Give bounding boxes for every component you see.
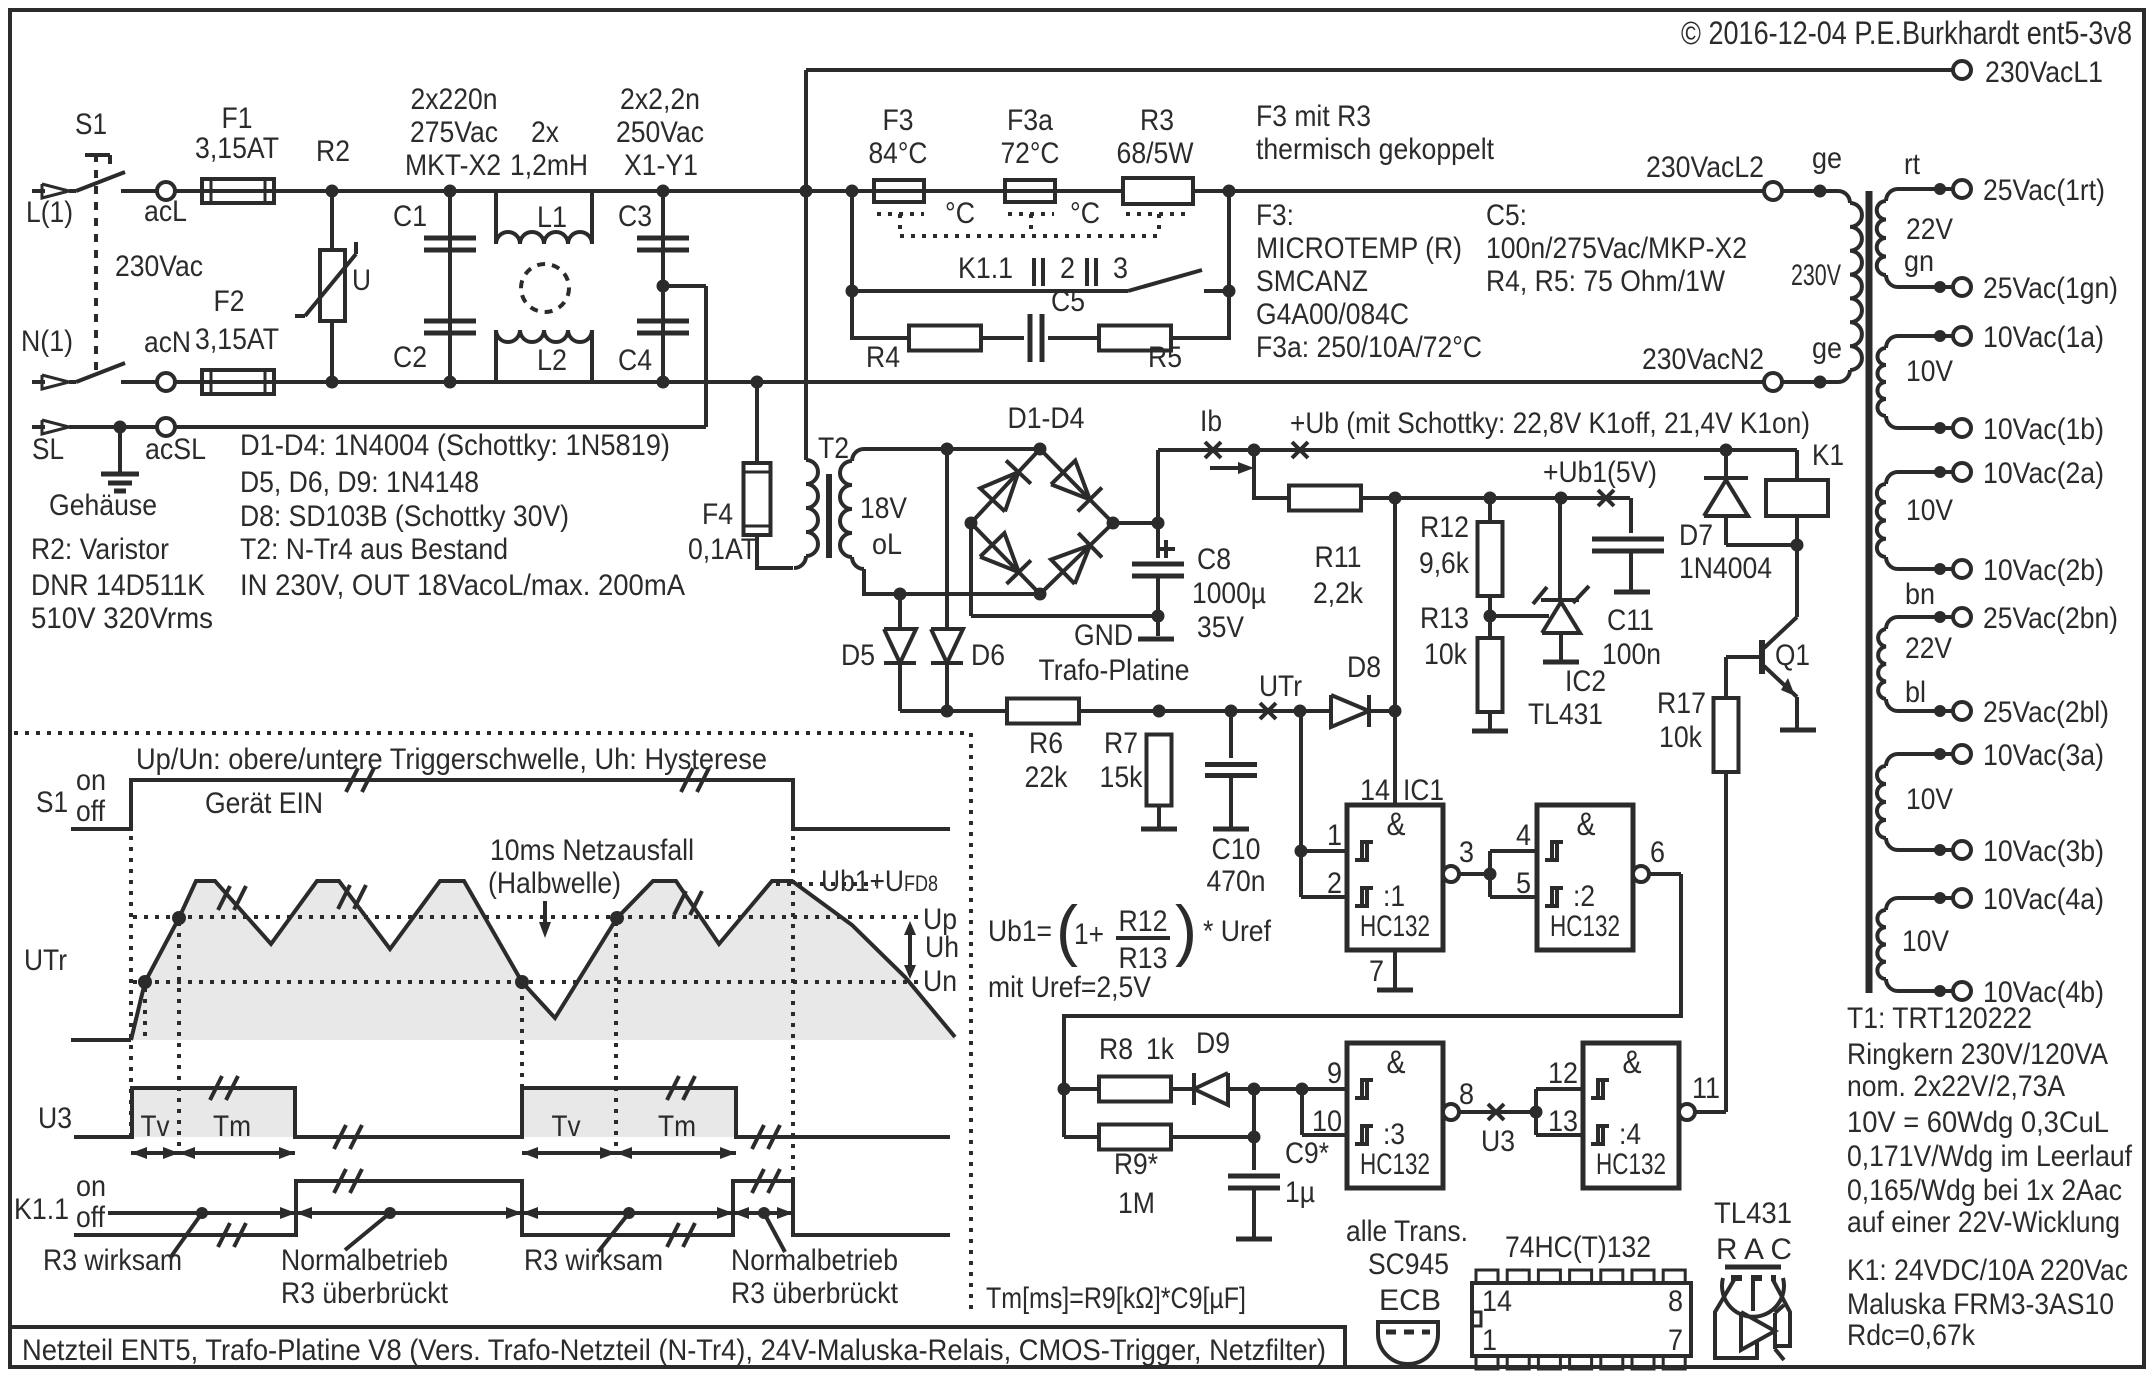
svg-text:0,165/Wdg bei 1x 2Aac: 0,165/Wdg bei 1x 2Aac: [1847, 1174, 2122, 1207]
svg-text:9: 9: [1327, 1057, 1342, 1090]
svg-text:510V 320Vrms: 510V 320Vrms: [31, 602, 213, 635]
svg-text:Tm[ms]=R9[kΩ]*C9[µF]: Tm[ms]=R9[kΩ]*C9[µF]: [986, 1282, 1246, 1315]
svg-text:C5: C5: [1051, 285, 1085, 318]
svg-text:C3: C3: [618, 200, 652, 233]
svg-text:R6: R6: [1029, 727, 1063, 760]
svg-text:(Halbwelle): (Halbwelle): [488, 867, 621, 900]
svg-text:&: &: [1623, 1044, 1642, 1080]
svg-text:R5: R5: [1148, 341, 1182, 374]
svg-text:K1.1: K1.1: [14, 1193, 69, 1226]
svg-text:D5, D6, D9: 1N4148: D5, D6, D9: 1N4148: [240, 466, 479, 499]
svg-text:HC132: HC132: [1360, 910, 1430, 943]
svg-text:1000µ: 1000µ: [1192, 577, 1266, 610]
svg-text:F4: F4: [702, 498, 733, 531]
svg-text:Un: Un: [923, 965, 957, 998]
svg-text:9,6k: 9,6k: [1419, 547, 1470, 580]
svg-text:R8: R8: [1099, 1033, 1133, 1066]
svg-text:Q1: Q1: [1775, 639, 1810, 672]
svg-text:230Vac: 230Vac: [115, 250, 203, 283]
svg-text:MKT-X2: MKT-X2: [405, 149, 501, 182]
svg-text:K1: K1: [1812, 439, 1844, 472]
svg-text:Maluska FRM3-3AS10: Maluska FRM3-3AS10: [1847, 1288, 2114, 1321]
svg-text:on: on: [76, 1170, 106, 1203]
svg-text::1: :1: [1383, 880, 1405, 913]
svg-text:25Vac(2bl): 25Vac(2bl): [1983, 696, 2109, 729]
svg-text:GND: GND: [1074, 619, 1133, 652]
svg-text:Tm: Tm: [658, 1110, 696, 1143]
svg-text:R13: R13: [1420, 602, 1469, 635]
svg-text:Rdc=0,67k: Rdc=0,67k: [1847, 1319, 1976, 1352]
svg-text:68/5W: 68/5W: [1117, 137, 1195, 170]
svg-text:K1: 24VDC/10A 220Vac: K1: 24VDC/10A 220Vac: [1847, 1254, 2128, 1287]
svg-text:ECB: ECB: [1379, 1284, 1441, 1317]
svg-text:C11: C11: [1607, 604, 1654, 637]
svg-text:8: 8: [1668, 1285, 1683, 1318]
svg-text:HC132: HC132: [1550, 910, 1620, 943]
svg-text:Netzteil ENT5, Trafo-Platine V: Netzteil ENT5, Trafo-Platine V8 (Vers. T…: [22, 1334, 1326, 1367]
svg-text:oL: oL: [872, 528, 902, 561]
svg-text:1+: 1+: [1074, 918, 1104, 951]
svg-text:Normalbetrieb: Normalbetrieb: [281, 1244, 448, 1277]
svg-text:2,2k: 2,2k: [1313, 577, 1364, 610]
svg-text:14: 14: [1360, 774, 1390, 807]
svg-text:4: 4: [1516, 819, 1531, 852]
svg-text:R A C: R A C: [1716, 1233, 1792, 1266]
svg-text:rt: rt: [1904, 148, 1921, 181]
svg-text:ge: ge: [1812, 142, 1842, 175]
svg-text:3,15AT: 3,15AT: [195, 323, 279, 356]
svg-text:10V: 10V: [1902, 925, 1949, 958]
svg-text:thermisch gekoppelt: thermisch gekoppelt: [1256, 133, 1495, 166]
svg-text:10Vac(2b): 10Vac(2b): [1983, 554, 2104, 587]
svg-text:F3a: F3a: [1007, 104, 1053, 137]
svg-text:C1: C1: [393, 200, 427, 233]
svg-text:Normalbetrieb: Normalbetrieb: [731, 1244, 898, 1277]
svg-text:&: &: [1387, 806, 1406, 842]
svg-text:230VacL1: 230VacL1: [1985, 56, 2103, 89]
svg-text:470n: 470n: [1207, 865, 1266, 898]
svg-text:+Ub1(5V): +Ub1(5V): [1543, 456, 1657, 489]
svg-text:IC1: IC1: [1403, 774, 1444, 807]
svg-text:F3:: F3:: [1256, 199, 1294, 232]
svg-text:25Vac(2bn): 25Vac(2bn): [1983, 602, 2118, 635]
svg-text:X1-Y1: X1-Y1: [624, 149, 698, 182]
svg-text:1: 1: [1482, 1324, 1497, 1357]
svg-text:on: on: [76, 764, 106, 797]
svg-text:C8: C8: [1197, 543, 1231, 576]
svg-text:230V: 230V: [1791, 259, 1841, 292]
svg-text:off: off: [76, 795, 106, 828]
svg-text:1M: 1M: [1118, 1187, 1155, 1220]
svg-text:10Vac(3b): 10Vac(3b): [1983, 835, 2104, 868]
svg-text:L(1): L(1): [26, 196, 73, 229]
svg-text:D9: D9: [1196, 1027, 1230, 1060]
svg-text:R3 überbrückt: R3 überbrückt: [731, 1277, 899, 1310]
svg-text:11: 11: [1692, 1072, 1720, 1105]
svg-text:&: &: [1387, 1044, 1406, 1080]
svg-text:S1: S1: [36, 786, 68, 819]
svg-text:T2: N-Tr4 aus Bestand: T2: N-Tr4 aus Bestand: [240, 533, 508, 566]
svg-text:6: 6: [1650, 836, 1665, 869]
svg-text:10Vac(1b): 10Vac(1b): [1983, 413, 2104, 446]
svg-text:off: off: [76, 1201, 106, 1234]
svg-text:HC132: HC132: [1596, 1148, 1666, 1181]
svg-text:3: 3: [1113, 252, 1128, 285]
svg-text:gn: gn: [1904, 245, 1934, 278]
svg-text:T1: TRT120222: T1: TRT120222: [1847, 1002, 2032, 1035]
svg-text:Tm: Tm: [213, 1110, 251, 1143]
svg-text:mit Uref=2,5V: mit Uref=2,5V: [988, 971, 1151, 1004]
svg-text:2x220n: 2x220n: [411, 83, 498, 116]
svg-text:25Vac(1gn): 25Vac(1gn): [1983, 272, 2118, 305]
svg-text:UTr: UTr: [1259, 670, 1302, 703]
svg-text:F2: F2: [214, 285, 245, 318]
svg-text:84°C: 84°C: [869, 137, 928, 170]
svg-text:Tv: Tv: [552, 1110, 581, 1143]
svg-text:DNR 14D511K: DNR 14D511K: [31, 569, 205, 602]
svg-text:7: 7: [1668, 1324, 1683, 1357]
svg-text:74HC(T)132: 74HC(T)132: [1505, 1231, 1651, 1264]
svg-text:10V: 10V: [1906, 783, 1953, 816]
svg-text:acSL: acSL: [145, 433, 206, 466]
svg-text:10Vac(1a): 10Vac(1a): [1983, 321, 2104, 354]
svg-text:S1: S1: [75, 108, 107, 141]
svg-text:230VacN2: 230VacN2: [1642, 343, 1764, 376]
svg-text:Tv: Tv: [141, 1110, 170, 1143]
svg-text:L2: L2: [537, 344, 567, 377]
svg-text:R11: R11: [1315, 541, 1362, 574]
svg-text:10k: 10k: [1659, 721, 1703, 754]
svg-text:100n/275Vac/MKP-X2: 100n/275Vac/MKP-X2: [1486, 232, 1747, 265]
svg-text:G4A00/084C: G4A00/084C: [1256, 298, 1409, 331]
svg-text:bl: bl: [1905, 676, 1926, 709]
svg-text:1µ: 1µ: [1285, 1176, 1315, 1209]
svg-text:C4: C4: [618, 344, 652, 377]
svg-text:1,2mH: 1,2mH: [510, 149, 588, 182]
svg-text:14: 14: [1482, 1285, 1512, 1318]
svg-text:R12: R12: [1119, 905, 1168, 938]
svg-text:Ib: Ib: [1200, 405, 1222, 438]
svg-text:C5:: C5:: [1486, 199, 1527, 232]
svg-text:acL: acL: [144, 195, 187, 228]
svg-text:10ms Netzausfall: 10ms Netzausfall: [490, 834, 694, 867]
svg-text:2: 2: [1327, 867, 1342, 900]
svg-text:22k: 22k: [1025, 761, 1069, 794]
svg-text:R12: R12: [1420, 511, 1469, 544]
svg-text:Gerät EIN: Gerät EIN: [205, 787, 323, 820]
svg-text:C10: C10: [1212, 833, 1261, 866]
svg-text:1k: 1k: [1146, 1033, 1175, 1066]
svg-text:12: 12: [1548, 1057, 1578, 1090]
svg-text:IC2: IC2: [1565, 665, 1606, 698]
svg-text:10Vac(2a): 10Vac(2a): [1983, 457, 2104, 490]
svg-text:2: 2: [1060, 252, 1075, 285]
svg-text:SMCANZ: SMCANZ: [1256, 265, 1368, 298]
svg-text:R7: R7: [1104, 727, 1138, 760]
svg-text:D6: D6: [971, 639, 1005, 672]
svg-text:TL431: TL431: [1714, 1197, 1792, 1230]
svg-text:25Vac(1rt): 25Vac(1rt): [1983, 174, 2105, 207]
svg-text:C2: C2: [393, 341, 427, 374]
svg-text:D8: D8: [1347, 651, 1381, 684]
svg-text:SC945: SC945: [1368, 1248, 1449, 1281]
svg-text:15k: 15k: [1100, 761, 1144, 794]
svg-text:22V: 22V: [1906, 213, 1953, 246]
svg-text:F3a: 250/10A/72°C: F3a: 250/10A/72°C: [1256, 331, 1482, 364]
svg-text:F1: F1: [222, 102, 253, 135]
svg-text:10Vac(4a): 10Vac(4a): [1983, 883, 2104, 916]
svg-text:°C: °C: [945, 197, 975, 230]
svg-text:3: 3: [1459, 836, 1474, 869]
svg-text:230VacL2: 230VacL2: [1646, 151, 1764, 184]
svg-text:FD8: FD8: [904, 871, 938, 896]
svg-text::3: :3: [1383, 1118, 1405, 1151]
svg-text:R9*: R9*: [1114, 1148, 1158, 1181]
svg-text:D7: D7: [1679, 519, 1713, 552]
svg-text:D1-D4: D1-D4: [1008, 402, 1085, 435]
svg-text:TL431: TL431: [1528, 698, 1603, 731]
svg-text:10: 10: [1312, 1105, 1342, 1138]
svg-text:Ub1=: Ub1=: [988, 915, 1052, 948]
svg-text:bn: bn: [1905, 578, 1935, 611]
svg-text:Ub1+U: Ub1+U: [821, 865, 904, 898]
svg-text:N(1): N(1): [21, 325, 73, 358]
svg-text:D1-D4: 1N4004 (Schottky: 1N581: D1-D4: 1N4004 (Schottky: 1N5819): [240, 429, 670, 462]
svg-text:2x: 2x: [531, 116, 559, 149]
svg-text:R4: R4: [866, 341, 900, 374]
svg-text:U: U: [352, 264, 371, 297]
svg-text:R4, R5: 75 Ohm/1W: R4, R5: 75 Ohm/1W: [1486, 265, 1726, 298]
svg-text:100n: 100n: [1602, 638, 1661, 671]
svg-text:U3: U3: [1481, 1125, 1515, 1158]
svg-text:Gehäuse: Gehäuse: [49, 489, 157, 522]
svg-text:alle Trans.: alle Trans.: [1346, 1215, 1468, 1248]
svg-text:SL: SL: [32, 433, 64, 466]
svg-text:10V = 60Wdg 0,3CuL: 10V = 60Wdg 0,3CuL: [1847, 1106, 2109, 1139]
svg-text:10V: 10V: [1906, 355, 1953, 388]
svg-text:5: 5: [1516, 867, 1531, 900]
svg-text:R3: R3: [1140, 104, 1174, 137]
svg-text:L1: L1: [537, 201, 567, 234]
svg-text:F3: F3: [883, 104, 914, 137]
svg-text:HC132: HC132: [1360, 1148, 1430, 1181]
svg-text:UTr: UTr: [24, 944, 67, 977]
svg-text:acN: acN: [144, 326, 191, 359]
svg-text:0,1AT: 0,1AT: [688, 533, 757, 566]
svg-text:R3 wirksam: R3 wirksam: [43, 1244, 182, 1277]
svg-text:1N4004: 1N4004: [1679, 552, 1772, 585]
svg-text:13: 13: [1548, 1105, 1578, 1138]
svg-text:R3 überbrückt: R3 überbrückt: [281, 1277, 449, 1310]
svg-text::2: :2: [1573, 880, 1595, 913]
svg-text:250Vac: 250Vac: [616, 116, 704, 149]
svg-text:10k: 10k: [1424, 638, 1468, 671]
svg-text:nom. 2x22V/2,73A: nom. 2x22V/2,73A: [1847, 1070, 2065, 1103]
svg-text:© 2016-12-04 P.E.Burkhardt ent: © 2016-12-04 P.E.Burkhardt ent5-3v8: [1681, 15, 2132, 51]
svg-text:72°C: 72°C: [1001, 137, 1060, 170]
svg-text:Ringkern 230V/120VA: Ringkern 230V/120VA: [1847, 1038, 2108, 1071]
svg-text:275Vac: 275Vac: [410, 116, 498, 149]
svg-text:R2: Varistor: R2: Varistor: [31, 533, 169, 566]
svg-text:D5: D5: [841, 639, 875, 672]
svg-text::4: :4: [1619, 1118, 1641, 1151]
svg-text:2x2,2n: 2x2,2n: [620, 83, 700, 116]
svg-text:7: 7: [1369, 955, 1384, 988]
svg-text:Up/Un: obere/untere Triggersch: Up/Un: obere/untere Triggerschwelle, Uh:…: [136, 743, 767, 776]
svg-text:3,15AT: 3,15AT: [195, 132, 279, 165]
svg-text:Uh: Uh: [925, 931, 959, 964]
svg-text:35V: 35V: [1197, 611, 1244, 644]
svg-text:22V: 22V: [1905, 632, 1952, 665]
svg-text:IN 230V, OUT 18VacoL/max. 200m: IN 230V, OUT 18VacoL/max. 200mA: [240, 569, 685, 602]
svg-text:R17: R17: [1657, 687, 1706, 720]
svg-text:°C: °C: [1070, 197, 1100, 230]
svg-text:&: &: [1577, 806, 1596, 842]
svg-text:0,171V/Wdg im Leerlauf: 0,171V/Wdg im Leerlauf: [1847, 1140, 2133, 1173]
svg-text:R2: R2: [316, 135, 350, 168]
svg-text:8: 8: [1459, 1078, 1474, 1111]
svg-text:10Vac(3a): 10Vac(3a): [1983, 739, 2104, 772]
svg-text:* Uref: * Uref: [1203, 915, 1272, 948]
svg-text:F3 mit R3: F3 mit R3: [1256, 100, 1371, 133]
svg-text:MICROTEMP (R): MICROTEMP (R): [1256, 232, 1462, 265]
svg-text:C9*: C9*: [1285, 1137, 1329, 1170]
svg-text:U3: U3: [38, 1102, 72, 1135]
svg-text:1: 1: [1327, 819, 1342, 852]
svg-text:Trafo-Platine: Trafo-Platine: [1039, 654, 1190, 687]
svg-text:R3 wirksam: R3 wirksam: [524, 1244, 663, 1277]
svg-text:T2: T2: [818, 432, 849, 465]
svg-text:K1.1: K1.1: [958, 252, 1013, 285]
svg-text:D8: SD103B (Schottky 30V): D8: SD103B (Schottky 30V): [240, 500, 569, 533]
svg-text:): ): [1175, 892, 1197, 968]
svg-text:auf einer 22V-Wicklung: auf einer 22V-Wicklung: [1847, 1206, 2120, 1239]
svg-text:ge: ge: [1812, 332, 1842, 365]
svg-text:10V: 10V: [1906, 494, 1953, 527]
svg-text:18V: 18V: [860, 492, 907, 525]
svg-text:+Ub (mit Schottky: 22,8V K1off: +Ub (mit Schottky: 22,8V K1off, 21,4V K1…: [1290, 407, 1810, 440]
